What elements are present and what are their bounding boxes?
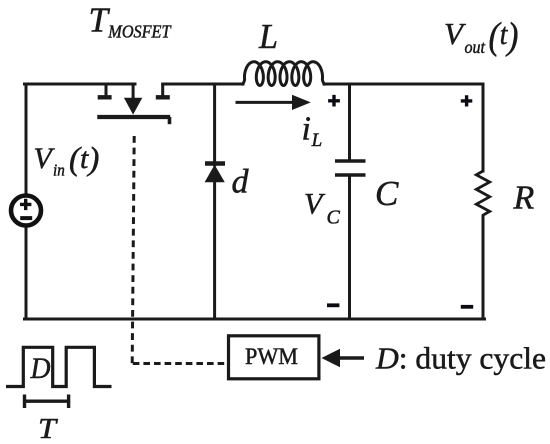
- svg-text:L: L: [311, 130, 323, 151]
- svg-text:i: i: [302, 111, 311, 148]
- inductor L: [242, 62, 326, 86]
- wire right vertical top: [482, 84, 485, 171]
- svg-text:out: out: [465, 37, 486, 57]
- label V_out(t): [444, 16, 519, 58]
- svg-text:d: d: [232, 164, 250, 201]
- arrow into PWM: [322, 349, 365, 367]
- wire top-left segment: [25, 83, 136, 86]
- wire inductor to top-right corner: [324, 83, 483, 86]
- label V_C: [304, 187, 341, 228]
- voltage source V_in: [11, 196, 41, 226]
- current arrow i_L: [236, 95, 311, 110]
- wire capacitor branch bottom: [348, 175, 351, 319]
- svg-text:(t): (t): [489, 16, 519, 58]
- wire diode branch top: [213, 84, 216, 165]
- wire MOSFET-right to inductor: [163, 83, 243, 86]
- diode d: [205, 164, 225, 183]
- wire capacitor branch top: [348, 84, 351, 161]
- wire right vertical bottom: [482, 217, 485, 320]
- polarity minus of capacitor: [327, 303, 339, 307]
- wire left vertical bottom: [25, 227, 28, 319]
- svg-text:PWM: PWM: [245, 344, 298, 370]
- resistor R: [476, 171, 489, 217]
- svg-text:R: R: [513, 180, 535, 217]
- capacitor C: [335, 161, 366, 175]
- PWM box: [229, 336, 319, 379]
- label i_L: [302, 111, 323, 151]
- svg-text:L: L: [258, 17, 278, 56]
- svg-text:T: T: [89, 1, 111, 40]
- svg-text:C: C: [327, 207, 341, 229]
- svg-text:T: T: [38, 414, 59, 444]
- transistor Q1 T_MOSFET: [97, 83, 170, 125]
- polarity plus of load: [461, 95, 473, 106]
- wire left vertical top: [25, 84, 28, 194]
- svg-text:V: V: [304, 187, 326, 220]
- svg-text:D: D: [30, 352, 51, 385]
- PWM waveform square wave: [6, 347, 112, 386]
- svg-text:MOSFET: MOSFET: [107, 22, 172, 42]
- svg-text:D: duty cycle: D: duty cycle: [375, 341, 546, 376]
- svg-text:(t): (t): [69, 142, 99, 178]
- svg-text:in: in: [53, 160, 65, 179]
- dashed gate-drive line vertical: [132, 136, 134, 364]
- polarity minus of load: [461, 305, 473, 309]
- wire bottom horizontal: [25, 318, 485, 321]
- period T measure line: [25, 395, 69, 409]
- polarity plus of capacitor: [328, 95, 340, 107]
- svg-text:V: V: [444, 16, 466, 51]
- wire diode branch bottom: [213, 181, 216, 319]
- dashed gate-drive line horizontal: [133, 362, 227, 365]
- label T_MOSFET: [89, 1, 173, 42]
- svg-text:C: C: [375, 174, 399, 213]
- label V_in(t): [34, 142, 100, 180]
